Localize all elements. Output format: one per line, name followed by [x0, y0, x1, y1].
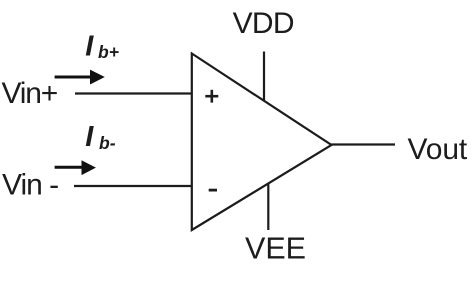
- svg-text:b-: b-: [99, 133, 116, 153]
- svg-text:Vin -: Vin -: [2, 169, 58, 202]
- svg-text:b+: b+: [98, 42, 119, 62]
- svg-text:I: I: [85, 121, 94, 153]
- svg-text:Vin+: Vin+: [2, 77, 58, 110]
- VDD pin wire: [263, 52, 265, 102]
- arrow for bias current Ib+: [55, 70, 105, 85]
- wire Vin- to - input: [74, 185, 192, 187]
- svg-text:Vout: Vout: [408, 133, 468, 166]
- svg-text:VDD: VDD: [233, 7, 294, 40]
- wire Vin+ to + input: [75, 92, 192, 94]
- svg-text:I: I: [85, 30, 94, 62]
- inverting input marker -: [209, 189, 217, 192]
- non-inverting input marker +: [205, 90, 218, 103]
- VEE pin wire: [267, 184, 269, 231]
- op-amp U1 triangle body: [192, 54, 332, 231]
- label Ib-: [85, 121, 115, 153]
- svg-text:VEE: VEE: [245, 232, 306, 266]
- label Ib+: [85, 30, 119, 62]
- arrow for bias current Ib-: [55, 160, 96, 175]
- wire output to Vout: [332, 143, 396, 145]
